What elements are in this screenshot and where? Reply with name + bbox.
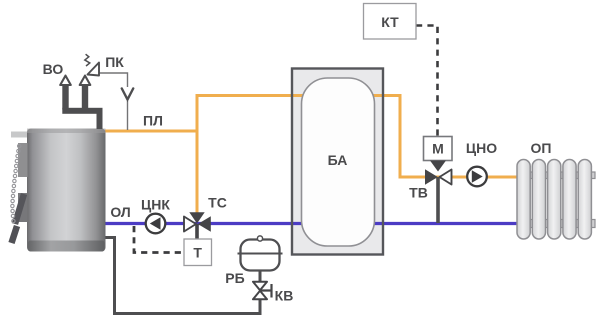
boiler damper lever xyxy=(11,132,27,138)
wire: supply from tank to TV valve xyxy=(373,96,518,178)
svg-text:ВО: ВО xyxy=(43,61,64,77)
room thermostat KT box xyxy=(364,4,417,40)
label RB xyxy=(225,270,244,286)
boiler body xyxy=(27,129,106,252)
label OL xyxy=(110,204,130,220)
label OP xyxy=(531,140,552,156)
svg-text:РБ: РБ xyxy=(225,270,244,286)
svg-text:М: М xyxy=(432,141,444,157)
label CNO xyxy=(466,140,497,156)
svg-text:ТВ: ТВ xyxy=(409,185,428,201)
discharge funnel xyxy=(122,89,133,100)
boiler lower door xyxy=(18,193,28,222)
wire: dashed control line T to pump CNK xyxy=(134,226,183,253)
svg-text:ПЛ: ПЛ xyxy=(143,113,163,129)
label TS xyxy=(208,195,227,211)
svg-text:ОЛ: ОЛ xyxy=(110,204,130,220)
safety valve PK xyxy=(85,54,99,75)
label TV xyxy=(409,185,428,201)
svg-text:ПК: ПК xyxy=(105,54,124,70)
label PL xyxy=(143,113,163,129)
svg-text:ЦНК: ЦНК xyxy=(141,197,170,213)
thermostat T box xyxy=(184,239,212,266)
svg-text:ОП: ОП xyxy=(531,140,552,156)
3-way valve TV xyxy=(425,161,452,224)
svg-text:Т: Т xyxy=(193,245,202,261)
wire: drain pipe from boiler to KV xyxy=(105,238,260,314)
label CNK xyxy=(141,197,170,213)
svg-text:КТ: КТ xyxy=(381,14,399,30)
wire: safety valve discharge line xyxy=(98,73,128,130)
wire: supply pipe PL from boiler xyxy=(105,130,199,133)
wire: dashed control line KT to M xyxy=(416,26,438,137)
wire: return pipe OL xyxy=(105,222,518,225)
pump CNK xyxy=(146,214,166,234)
radiator OP xyxy=(517,160,595,240)
label VO xyxy=(43,61,64,77)
boiler damper chain xyxy=(11,144,21,222)
label PK xyxy=(105,54,124,70)
label BA xyxy=(328,152,348,168)
vent arrow at safety valve xyxy=(80,76,91,85)
boiler door handle xyxy=(12,194,25,243)
expansion tank RB xyxy=(238,236,283,282)
buffer tank BA border xyxy=(292,69,383,255)
svg-text:БА: БА xyxy=(328,152,348,168)
3-way valve TS xyxy=(184,212,211,239)
boiler vent manifold pipe xyxy=(62,84,102,130)
wire: supply top run to tank xyxy=(196,94,304,97)
label KV xyxy=(275,288,294,304)
servo actuator M box xyxy=(424,137,453,161)
svg-text:ЦНО: ЦНО xyxy=(466,140,497,156)
drain valve KV xyxy=(253,282,272,300)
svg-text:ТС: ТС xyxy=(208,195,227,211)
wire: supply riser to TS valve xyxy=(196,94,199,213)
svg-text:КВ: КВ xyxy=(275,288,294,304)
air vent arrow VO xyxy=(60,76,71,85)
boiler upper door xyxy=(18,143,28,177)
buffer tank BA inner vessel xyxy=(302,78,375,246)
buffer tank BA body fill xyxy=(292,69,383,255)
pump CNO xyxy=(467,167,487,187)
